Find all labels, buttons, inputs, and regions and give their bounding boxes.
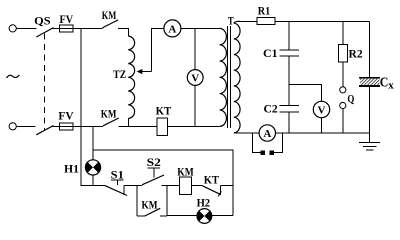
contactor coil KM	[180, 177, 192, 195]
autotransformer TZ winding	[128, 36, 134, 119]
terminal lower input	[9, 123, 16, 130]
wire fuse FV upper to contact KM	[73, 27, 102, 29]
svg-text:QS: QS	[34, 13, 51, 27]
svg-text:R2: R2	[349, 47, 363, 61]
wire Cx to ground	[368, 86, 370, 133]
fuse FV upper	[59, 25, 73, 32]
svg-text:H1: H1	[64, 162, 79, 176]
wire voltmeter V to bottom	[194, 85, 196, 126]
relay contact KT (delayed)	[203, 185, 222, 196]
ground	[359, 133, 380, 150]
wire secondary top to R1	[234, 21, 240, 23]
svg-text:T: T	[228, 14, 234, 28]
svg-text:KT: KT	[204, 172, 219, 186]
svg-text:V: V	[191, 72, 199, 84]
wire top HV bus	[275, 20, 369, 22]
svg-text:S1: S1	[111, 167, 124, 181]
wire KM coil to KT contact	[192, 184, 203, 186]
svg-text:KM: KM	[101, 107, 117, 121]
node control tap vertical (lower phase to rail)	[92, 126, 94, 160]
voltmeter V primary	[187, 70, 203, 86]
transformer T secondary winding	[234, 23, 240, 133]
spark gap Q upper electrode	[340, 87, 346, 93]
wire S1 to S2	[124, 184, 142, 186]
svg-text:R1: R1	[258, 3, 270, 17]
capacitor C1	[280, 50, 300, 56]
resistor R1	[257, 18, 275, 25]
pushbutton S1 (stop, NC)	[105, 180, 127, 196]
wire control rail top	[93, 150, 233, 215]
wire secondary bottom bus left	[234, 132, 259, 134]
svg-text:KM: KM	[142, 198, 158, 212]
contactor contact KM lower	[103, 118, 119, 126]
wire R2 to gap Q	[342, 62, 344, 87]
wire KM lower along bottom	[118, 125, 157, 127]
wire H2 branch right	[212, 215, 233, 217]
contactor aux contact KM (self hold)	[137, 208, 167, 216]
svg-text:KM: KM	[102, 8, 117, 22]
node control tap vertical (upper phase to bottom rail)	[81, 28, 105, 185]
wire divider tap to voltmeter V2	[289, 85, 322, 102]
lamp H1	[85, 160, 100, 175]
wire KM upper to TZ	[118, 28, 128, 36]
wire wiper to ammeter A	[151, 28, 164, 71]
wire H2 branch left	[167, 215, 197, 217]
svg-text:A: A	[263, 128, 271, 140]
svg-text:FV: FV	[60, 12, 74, 26]
switch QS upper pole blade	[36, 28, 53, 37]
wire C2 to bottom bus	[288, 112, 290, 133]
wire KT contact to right rail	[221, 184, 233, 186]
relay coil KT (in series bottom wire)	[157, 118, 168, 135]
voltmeter V divider	[313, 101, 329, 117]
contactor contact KM upper	[102, 20, 118, 28]
ammeter A primary	[164, 20, 181, 37]
autotransformer TZ wiper arrow	[137, 69, 152, 74]
wire C1 to C2	[288, 56, 290, 106]
resistor R2	[339, 45, 348, 63]
capacitor C2	[280, 106, 300, 112]
wire junction down to KM aux right	[166, 185, 168, 215]
svg-text:KT: KT	[156, 104, 172, 118]
AC source symbol ~	[7, 75, 20, 78]
svg-text:x: x	[388, 81, 394, 92]
svg-text:FV: FV	[58, 108, 74, 122]
transformer T core	[228, 26, 231, 128]
wire Cx branch from bus corner	[368, 21, 370, 77]
pushbutton S2 (start, NO)	[142, 168, 164, 185]
wire junction down to KM aux	[136, 185, 138, 216]
test object Cx	[359, 78, 380, 86]
terminal upper input	[9, 25, 16, 32]
wire KT to T primary bottom	[168, 125, 220, 127]
wire voltmeter V branch	[194, 28, 196, 69]
ammeter bypass link with plug dots	[253, 133, 283, 155]
switch QS mechanical link (dashed)	[43, 34, 45, 130]
svg-text:TZ: TZ	[113, 67, 126, 81]
wire gap Q to bus	[342, 109, 344, 133]
switch QS lower pole blade	[36, 126, 53, 135]
wire TZ coil bottom jog	[127, 119, 129, 127]
svg-text:Q: Q	[347, 91, 354, 105]
wire lower input	[16, 125, 36, 127]
wire lamp H1 to bottom rail	[92, 175, 94, 185]
svg-text:A: A	[168, 23, 176, 35]
svg-text:S2: S2	[147, 155, 161, 169]
transformer T primary winding	[220, 28, 227, 126]
wire voltmeter V divider to bus	[321, 118, 323, 133]
svg-text:H2: H2	[197, 195, 211, 209]
spark gap Q lower electrode	[340, 102, 346, 108]
ammeter A divider	[259, 125, 275, 141]
svg-text:C: C	[380, 75, 389, 90]
svg-text:C2: C2	[264, 101, 278, 115]
wire QS to fuse FV upper	[53, 27, 60, 29]
wire QS to fuse FV lower	[53, 125, 60, 127]
wire R2 branch from bus	[342, 21, 344, 44]
fuse FV lower	[59, 123, 73, 130]
svg-text:KM: KM	[177, 164, 193, 178]
wire ammeter A to transformer T	[181, 27, 220, 29]
lamp H2	[197, 209, 212, 224]
svg-text:C1: C1	[263, 46, 278, 60]
wire upper input	[16, 27, 36, 29]
svg-text:V: V	[318, 104, 326, 116]
wire bottom bus right	[276, 132, 370, 134]
wire C1 branch from bus	[288, 21, 290, 50]
label Cx	[380, 75, 394, 91]
wire S2 to KM coil	[161, 184, 179, 186]
wire fuse FV lower to contact KM lower	[73, 125, 103, 127]
